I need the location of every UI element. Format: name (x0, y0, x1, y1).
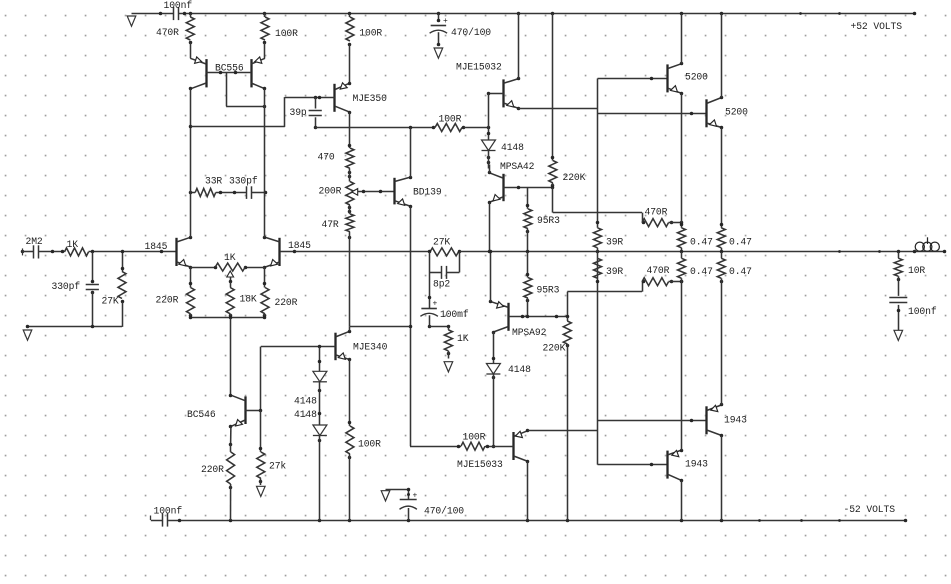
wire VAS node (315, 126, 435, 130)
svg-text:27K: 27K (102, 296, 119, 307)
svg-text:5200: 5200 (685, 72, 708, 83)
transistor Q15 MJE340 (261, 330, 388, 362)
wire BD139 emitter down (409, 206, 413, 446)
trimmer 1K emitters (215, 252, 245, 283)
svg-text:330pf: 330pf (229, 176, 258, 187)
svg-text:100R: 100R (359, 27, 382, 38)
wire 100R to MJE15032 base (464, 126, 491, 130)
junction dots output rail (838, 250, 881, 253)
wire tail line (189, 316, 267, 320)
capacitor 2M2 input (26, 236, 43, 259)
wire 1943 base node vertical (596, 258, 600, 464)
svg-text:+52 VOLTS: +52 VOLTS (851, 21, 903, 32)
svg-text:4148: 4148 (501, 142, 524, 153)
transistor Q16 BC546 (187, 394, 261, 429)
capacitor 470/100 (bottom) (386, 488, 465, 520)
wire MPSA92 base to 470R link (567, 282, 642, 292)
svg-text:1943: 1943 (685, 459, 708, 470)
wire 1K to Q1 base (89, 250, 177, 254)
wire 2M2 to 1K (39, 250, 65, 254)
resistor 0.47 (upper first) (678, 93, 714, 253)
svg-text:47R: 47R (322, 219, 339, 230)
wire mirror left collector down (189, 89, 193, 238)
svg-text:95R3: 95R3 (537, 215, 560, 226)
svg-text:4148: 4148 (508, 364, 531, 375)
ground (zobel) (894, 330, 903, 340)
resistor 0.47 (lower second) (717, 252, 752, 405)
resistor 220K (lower) (543, 292, 572, 520)
wire 5200 base node vertical (597, 79, 599, 228)
wire Q2 base to feedback rail (296, 251, 430, 253)
wire +52V rail (132, 13, 915, 15)
svg-text:33R: 33R (205, 176, 222, 187)
resistor 95R3 (lower) (524, 252, 560, 318)
transistor Q3 BC556 (left) (189, 57, 244, 90)
capacitor 39p (290, 97, 322, 129)
svg-text:1943: 1943 (724, 415, 747, 426)
wire input (23, 251, 34, 253)
svg-text:MJE15033: MJE15033 (457, 459, 503, 470)
svg-text:0.47: 0.47 (729, 266, 752, 277)
svg-text:220R: 220R (275, 297, 298, 308)
resistor 27k (BC546 base) (257, 347, 287, 485)
transistor Q5 MJE350 (285, 82, 387, 115)
svg-text:27k: 27k (269, 461, 286, 472)
wire MPSA42 base to 470R link (553, 188, 643, 223)
svg-text:220R: 220R (201, 464, 224, 475)
trimmer 200R (319, 182, 395, 206)
svg-text:2M2: 2M2 (26, 236, 43, 247)
svg-text:39p: 39p (290, 107, 307, 118)
resistor 47R (322, 205, 354, 239)
resistor 100R (MJE340 emitter) (346, 360, 381, 520)
svg-text:100R: 100R (463, 432, 486, 443)
resistor 100R (MJE350 emitter) (346, 14, 383, 84)
svg-text:BC546: BC546 (187, 409, 216, 420)
resistor 100R (mirror right) (261, 14, 298, 59)
resistor 27K input (102, 250, 127, 327)
svg-text:470R: 470R (647, 265, 670, 276)
ground (input) (23, 330, 32, 340)
wire input shunt node (91, 252, 95, 283)
resistor 470R (upper driver) (642, 207, 684, 227)
capacitor 100mf (420, 272, 468, 328)
wire 1943-1 base (598, 419, 707, 423)
svg-text:4148: 4148 (294, 409, 317, 420)
svg-text:470/100: 470/100 (451, 27, 491, 38)
inductor L1 (913, 237, 947, 253)
wire 1943-2 collector to rail (681, 480, 683, 520)
wire base-collector tie (226, 73, 266, 108)
svg-text:1K: 1K (224, 252, 236, 263)
svg-text:470R: 470R (156, 27, 179, 38)
wire tail to BC546 collector (230, 318, 232, 395)
svg-text:4148: 4148 (294, 396, 317, 407)
resistor 95R3 (upper) (524, 188, 560, 254)
wire MJE15033 emitter line (528, 430, 598, 432)
wire 47R down to MJE340 collector node (349, 232, 351, 327)
resistor 220R left emitter (156, 267, 195, 318)
svg-text:1845: 1845 (288, 240, 311, 251)
ground (top 470/100) (434, 48, 443, 58)
resistor 33R + capacitor 330pf (collector bridge) (189, 176, 268, 199)
svg-text:220R: 220R (156, 295, 179, 306)
wire 330pf to gnd line (92, 292, 94, 327)
wire mirror right collector down (264, 89, 266, 238)
wire MJE15033 collector to rail (527, 461, 529, 520)
transistor Q10 5200 (first) (668, 62, 709, 96)
svg-text:200R: 200R (319, 186, 342, 197)
svg-text:39R: 39R (606, 237, 623, 248)
svg-text:100mf: 100mf (440, 309, 469, 320)
svg-text:0.47: 0.47 (729, 236, 752, 247)
svg-text:330pf: 330pf (52, 281, 81, 292)
resistor 220R right emitter (261, 267, 298, 318)
wire BC556 bases (206, 71, 251, 75)
wire 100mf to 1K (429, 325, 450, 329)
svg-text:MJE340: MJE340 (353, 342, 388, 353)
svg-text:5200: 5200 (725, 107, 748, 118)
svg-text:220K: 220K (543, 343, 566, 354)
svg-text:95R3: 95R3 (537, 284, 560, 295)
svg-text:470: 470 (318, 152, 335, 163)
resistor 220R (BC546) (201, 426, 235, 520)
svg-text:1K: 1K (457, 333, 469, 344)
svg-text:-52 VOLTS: -52 VOLTS (844, 504, 896, 515)
svg-text:1K: 1K (67, 239, 79, 250)
transistor Q4 BC556 (right) (251, 57, 266, 90)
svg-text:0.47: 0.47 (690, 266, 713, 277)
transistor Q11 5200 (second) (706, 96, 748, 130)
junction dots top rail (159, 12, 917, 16)
resistor 100R (MJE15033 base) (461, 432, 486, 451)
svg-text:18K: 18K (240, 294, 257, 305)
svg-text:220K: 220K (563, 172, 586, 183)
wire MJE340 collector up (349, 327, 351, 332)
resistor 100R (VAS out) (434, 114, 465, 132)
resistor 470R (mirror left) (156, 14, 194, 59)
transistor Q7 MJE15032 (456, 62, 520, 111)
resistor 18K tail (226, 282, 257, 318)
diode string 4148 x2 (294, 347, 327, 520)
svg-text:39R: 39R (606, 266, 623, 277)
label +52 VOLTS (851, 21, 903, 32)
svg-text:100nf: 100nf (164, 0, 193, 11)
svg-text:10R: 10R (908, 265, 925, 276)
svg-text:27K: 27K (433, 237, 450, 248)
svg-text:+: + (413, 492, 418, 501)
svg-text:MJE15032: MJE15032 (456, 62, 502, 73)
transistor Q6 BD139 (395, 176, 442, 209)
wire mirror to MJE350 base (191, 97, 285, 127)
wire BD139 collector up (410, 128, 412, 178)
wire MJE340 coll to BD139 emitter (350, 326, 410, 328)
node input terminal (21, 248, 25, 255)
diode 4148 (lower) (486, 332, 531, 448)
wire 5200-1 base (598, 77, 668, 81)
wire -52V rail (151, 516, 906, 521)
svg-text:1845: 1845 (145, 241, 168, 252)
ground (bottom 470/100) (381, 491, 390, 501)
svg-text:+: + (443, 17, 448, 26)
junction dots bottom rail (178, 519, 908, 523)
svg-text:470R: 470R (645, 207, 668, 218)
capacitor 100nf (zobel) (889, 294, 937, 331)
svg-text:MPSA92: MPSA92 (512, 327, 547, 338)
wire output rail right of 27K (459, 251, 944, 253)
wire 5200-2 base (598, 112, 707, 116)
wire MJE15032 emitter line (518, 108, 597, 110)
resistor 470R (lower driver) (642, 265, 684, 286)
resistor 470 (318, 112, 354, 181)
resistor 0.47 (lower first) (678, 252, 714, 450)
wire 5200-2 collector to rail (721, 14, 723, 98)
ground (feedback 1K) (444, 362, 453, 372)
wire MPSA42 emitter to rail (488, 202, 492, 253)
capacitor 470/100 (top) (430, 14, 492, 47)
transistor Q13 1943 (first) (707, 403, 748, 438)
capacitor 100nf (bottom rail) (154, 506, 183, 527)
resistor 1K input (65, 239, 89, 256)
transistor Q2 1845 (right) (263, 236, 311, 270)
svg-text:MPSA42: MPSA42 (500, 161, 535, 172)
wire 1943-1 collector to rail (721, 435, 723, 520)
svg-text:470/100: 470/100 (424, 506, 464, 517)
resistor 220K (upper) (549, 14, 586, 190)
ground (top-left rail) (127, 16, 136, 26)
resistor 27K feedback (428, 237, 462, 256)
capacitor 330pf (52, 281, 99, 294)
resistor 1K feedback (444, 326, 468, 358)
transistor Q14 1943 (second) (668, 449, 709, 483)
svg-text:0.47: 0.47 (690, 236, 713, 247)
resistor 0.47 (upper second) (717, 127, 752, 253)
svg-text:100R: 100R (439, 114, 462, 125)
svg-text:100R: 100R (358, 439, 381, 450)
resistor 39R (upper) (594, 221, 624, 254)
svg-text:+: + (433, 299, 438, 308)
resistor 39R (lower) (594, 252, 624, 278)
wire MPSA92 emitter to rail (489, 250, 493, 302)
wire emitters line (191, 266, 266, 270)
transistor Q12 MJE15033 (410, 429, 529, 470)
svg-text:100nf: 100nf (908, 306, 937, 317)
transistor Q9 MPSA92 (489, 300, 568, 338)
transistor Q8 MPSA42 (488, 161, 553, 204)
wire 1943-2 base (598, 463, 668, 467)
transistor Q1 1845 (left) (145, 236, 193, 270)
svg-text:8p2: 8p2 (433, 279, 450, 290)
diode 4148 (upper) (482, 93, 525, 168)
resistor 10R (894, 250, 925, 294)
wire MJE15032 collector to rail (518, 14, 520, 79)
capacitor 100nf (top rail) (164, 0, 193, 20)
wire input gnd line (26, 325, 122, 329)
svg-text:BD139: BD139 (413, 187, 442, 198)
capacitor 8p2 (429, 252, 459, 290)
svg-text:100nf: 100nf (154, 506, 183, 517)
ground (27k) (257, 486, 266, 496)
svg-text:100R: 100R (275, 28, 298, 39)
wire 5200-1 collector to rail (681, 14, 683, 64)
svg-text:MJE350: MJE350 (353, 93, 388, 104)
label -52 VOLTS (844, 504, 896, 515)
